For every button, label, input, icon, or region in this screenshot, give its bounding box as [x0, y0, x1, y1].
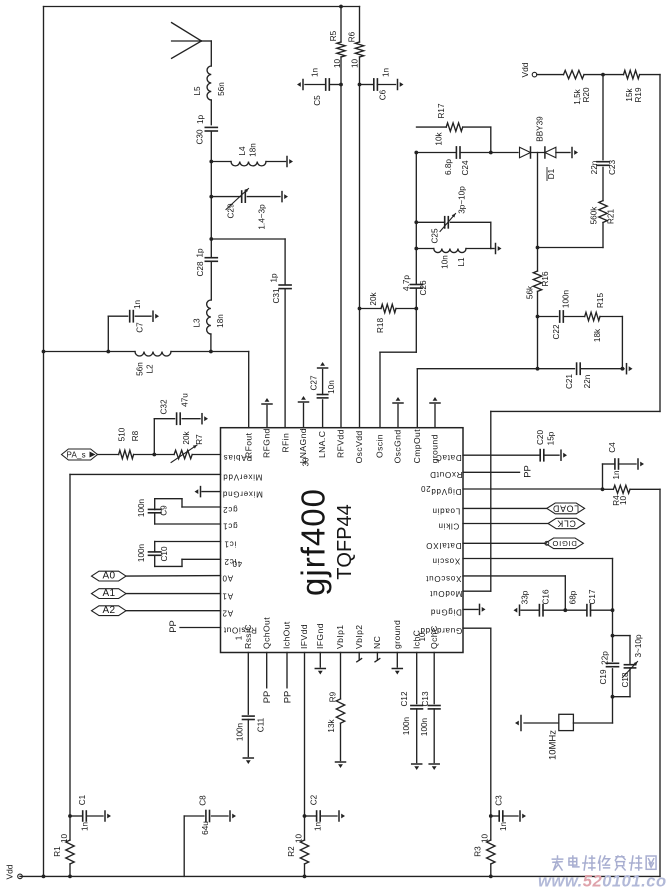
ground C12 bottom	[412, 764, 422, 770]
svg-text:R19: R19	[634, 87, 643, 102]
svg-text:100n: 100n	[137, 543, 146, 562]
resistor R21	[590, 201, 616, 225]
ground C1	[105, 811, 111, 821]
ground C7	[153, 311, 159, 321]
wire C23 to R21	[602, 167, 604, 200]
svg-text:MixerGnd: MixerGnd	[222, 490, 263, 499]
svg-text:10n: 10n	[441, 255, 450, 269]
wire C31 to RFin pin	[284, 289, 286, 428]
svg-text:C22: C22	[552, 324, 561, 339]
svg-text:CmpOut: CmpOut	[412, 429, 422, 464]
capacitor C4 branch	[603, 442, 637, 489]
resistor R15	[585, 293, 605, 343]
svg-text:C8: C8	[199, 795, 208, 806]
svg-text:C1: C1	[78, 794, 87, 805]
svg-text:IFGnd: IFGnd	[315, 623, 325, 649]
svg-text:Xoscin: Xoscin	[432, 556, 461, 565]
op-amp U1 gjrf400 TQFP44 body	[221, 428, 464, 653]
pin label DataC	[435, 453, 461, 462]
svg-text:Clkin: Clkin	[438, 521, 460, 530]
wire A0	[126, 575, 221, 578]
svg-text:gc1: gc1	[222, 522, 237, 531]
svg-text:R15: R15	[596, 293, 605, 308]
ground C20	[561, 450, 567, 460]
svg-text:ground: ground	[392, 620, 402, 649]
svg-text:1n: 1n	[133, 300, 142, 310]
svg-text:L2: L2	[146, 364, 155, 374]
svg-text:PP: PP	[261, 691, 272, 704]
svg-text:A1: A1	[222, 592, 233, 601]
resistor R5	[329, 30, 345, 68]
pin label PAbias	[223, 453, 252, 462]
svg-text:22p: 22p	[601, 651, 610, 665]
ground C8	[230, 811, 236, 821]
wire VbIp2 stub	[357, 653, 362, 662]
wire Xoscin	[463, 559, 613, 634]
pin label MixerVdd	[223, 472, 263, 481]
wire cap row 3	[591, 609, 613, 611]
wire NC stub	[375, 653, 380, 662]
wire MixerVdd	[70, 474, 221, 816]
junction varactor mid	[0, 0, 1, 1]
wire C23 top	[602, 75, 604, 160]
wire R17 down	[490, 127, 492, 152]
svg-text:C27: C27	[310, 375, 319, 390]
wire R19 to right wire	[640, 74, 660, 76]
svg-text:C6: C6	[379, 89, 388, 100]
pin label VbIp2	[354, 625, 364, 649]
svg-text:www.520101.com: www.520101.com	[538, 872, 666, 888]
node A1	[92, 588, 127, 599]
resistor R1	[53, 816, 74, 876]
svg-text:L4: L4	[238, 146, 247, 156]
svg-text:1n: 1n	[311, 68, 320, 78]
wire R15 to corner	[600, 317, 622, 369]
svg-text:R1: R1	[53, 846, 62, 857]
junction C18 top	[611, 634, 615, 638]
pin label RxOutD	[430, 470, 463, 479]
wire L2 left	[44, 351, 136, 353]
svg-text:QchC: QchC	[429, 625, 439, 649]
svg-text:Loadin: Loadin	[432, 506, 461, 515]
wire crystal left	[524, 722, 559, 724]
junction R18 left	[358, 307, 362, 311]
capacitor C26	[402, 275, 428, 296]
junction R17/C24	[489, 151, 493, 155]
svg-text:QchOut: QchOut	[261, 617, 271, 649]
pin label RFVdd	[336, 429, 346, 458]
svg-text:LNA.C: LNA.C	[317, 431, 327, 458]
ground C32	[202, 414, 208, 424]
svg-text:PP: PP	[282, 691, 293, 704]
svg-text:ic1: ic1	[224, 539, 236, 548]
svg-text:A0: A0	[103, 570, 116, 581]
capacitor C9	[137, 498, 169, 517]
svg-text:A2: A2	[103, 605, 116, 616]
svg-text:22n: 22n	[590, 160, 599, 174]
wire CmpOut net	[417, 368, 574, 370]
wire D1 to ground	[556, 152, 570, 154]
svg-text:R16: R16	[541, 271, 550, 286]
wire tank lower rail right	[466, 248, 491, 250]
wire tank right	[490, 222, 492, 248]
wire C19 to crystal	[573, 669, 612, 723]
junction tank top	[414, 220, 418, 224]
wire C22 to R15	[563, 316, 584, 318]
svg-text:Vdd: Vdd	[5, 864, 15, 879]
capacitor C21	[565, 363, 592, 389]
pin label IFGnd	[315, 623, 325, 649]
wire varactor mid down	[537, 153, 539, 272]
svg-text:C26: C26	[419, 280, 428, 295]
capacitor C10	[137, 543, 169, 562]
svg-text:33p: 33p	[521, 590, 530, 604]
pin label XoscOut	[425, 574, 461, 583]
wire L5 to C30	[210, 100, 212, 125]
svg-text:1p: 1p	[196, 248, 205, 258]
node A2	[92, 605, 127, 616]
wire C31 branch	[211, 239, 285, 285]
wire right vertical upper	[659, 75, 661, 412]
node CLK	[548, 518, 585, 528]
svg-text:ModOut: ModOut	[429, 589, 462, 598]
capacitor C1	[70, 794, 103, 831]
junction L3 node	[209, 350, 213, 354]
svg-text:100n: 100n	[420, 717, 429, 736]
svg-text:R7: R7	[195, 434, 204, 445]
pin number 1	[235, 635, 244, 640]
junction R16 bottom	[536, 367, 540, 371]
wire GuardVdd down	[490, 628, 492, 816]
ground OscGnd pin	[393, 397, 403, 428]
trimmer resistor R7	[171, 430, 204, 462]
node PP RxOutD	[522, 465, 533, 478]
resistor R6	[348, 31, 364, 68]
resistor R3	[474, 816, 496, 876]
capacitor C28	[196, 248, 218, 277]
svg-text:IFVdd: IFVdd	[299, 624, 309, 649]
wire C8 branch	[184, 816, 204, 876]
wire RssiC col	[247, 653, 249, 715]
svg-text:10: 10	[481, 834, 490, 844]
svg-text:47u: 47u	[181, 393, 190, 407]
svg-text:20k: 20k	[369, 291, 378, 305]
svg-text:100n: 100n	[562, 289, 571, 308]
capacitor C8	[199, 795, 229, 835]
svg-text:R2: R2	[287, 846, 296, 857]
capacitor C30	[196, 115, 218, 145]
ground C5	[297, 80, 303, 90]
antenna	[172, 23, 212, 59]
svg-text:C4: C4	[608, 442, 617, 453]
svg-text:A0: A0	[222, 574, 233, 583]
pin label A2	[222, 609, 233, 618]
svg-text:gc2: gc2	[222, 505, 237, 514]
junction R3 rail	[489, 875, 493, 879]
capacitor C20	[536, 430, 556, 461]
svg-text:15p: 15p	[547, 431, 556, 445]
ground C13 bottom	[429, 764, 439, 770]
svg-text:C2: C2	[310, 794, 319, 805]
wire tank col top	[415, 153, 417, 285]
svg-text:R9: R9	[329, 691, 338, 702]
junction top rail R5	[339, 5, 343, 9]
wire ic1 bracket	[155, 542, 221, 552]
svg-text:C30: C30	[196, 129, 205, 144]
capacitor C16	[521, 589, 551, 616]
svg-text:4.7p: 4.7p	[402, 275, 411, 291]
varactor diode D1 right half	[545, 147, 556, 158]
inductor L2	[135, 352, 171, 376]
pin label ic2	[224, 557, 236, 566]
svg-text:PA_s: PA_s	[67, 450, 86, 459]
resistor R18	[360, 291, 417, 333]
watermark url	[538, 872, 666, 888]
svg-text:C24: C24	[461, 160, 470, 175]
wire QchOut	[266, 653, 268, 688]
svg-text:C7: C7	[136, 322, 145, 333]
pin number 10	[418, 632, 427, 641]
svg-text:D1: D1	[547, 168, 556, 179]
svg-text:18n: 18n	[216, 314, 225, 328]
resistor R17	[417, 103, 491, 146]
svg-text:R21: R21	[607, 209, 616, 224]
pin label MixerGnd	[222, 490, 263, 499]
junction C5	[339, 83, 343, 87]
svg-text:L3: L3	[193, 318, 202, 328]
resistor R20	[564, 70, 592, 104]
svg-text:100n: 100n	[402, 716, 411, 735]
svg-text:56n: 56n	[136, 362, 145, 376]
svg-text:1n: 1n	[612, 470, 621, 480]
wire right vertical lower	[659, 489, 661, 876]
wire IchC col	[416, 653, 418, 704]
svg-text:OscGnd: OscGnd	[393, 429, 403, 463]
wire XoscOut	[463, 576, 565, 610]
wire C24 left	[416, 152, 456, 154]
wire C13 down	[433, 709, 435, 763]
wire C12 down	[416, 709, 418, 763]
svg-text:R6: R6	[348, 31, 357, 42]
svg-text:3~10p: 3~10p	[634, 634, 643, 657]
pin number 20	[420, 484, 430, 493]
ground top ground pin	[430, 397, 440, 428]
pin label OscVdd	[354, 430, 364, 463]
svg-text:C13: C13	[421, 691, 430, 706]
pin label RssiOut	[223, 625, 257, 634]
label TQFP44	[334, 504, 356, 580]
ground C11 bottom	[243, 758, 253, 764]
svg-text:PP: PP	[522, 465, 533, 478]
svg-text:10: 10	[295, 834, 304, 844]
wire tank upper rail	[416, 221, 444, 223]
junction C3	[489, 814, 493, 818]
pin label NC	[372, 636, 382, 649]
capacitor C31	[270, 273, 292, 304]
wire R6 col to OscVdd pin	[359, 57, 361, 428]
capacitor C6	[360, 68, 396, 101]
ground tank	[491, 244, 502, 254]
svg-text:68p: 68p	[569, 590, 578, 604]
wire R5 top	[340, 7, 342, 43]
svg-text:C10: C10	[160, 546, 169, 561]
trimmer capacitor C25	[431, 186, 491, 244]
svg-text:C16: C16	[542, 589, 551, 604]
svg-text:C9: C9	[160, 505, 169, 516]
node PA_s	[62, 449, 98, 460]
ground D1	[572, 148, 578, 158]
svg-text:10k: 10k	[435, 131, 444, 145]
svg-text:20k: 20k	[182, 430, 191, 444]
pin label RFin	[280, 433, 290, 453]
pin label LNA.C	[317, 431, 327, 458]
junction C7 tap	[106, 350, 110, 354]
svg-text:10: 10	[418, 632, 427, 641]
wire C19 col	[612, 636, 614, 662]
svg-text:R20: R20	[582, 87, 591, 102]
trimmer capacitor C29	[226, 189, 280, 230]
svg-text:RssiC: RssiC	[243, 624, 253, 649]
junction R1 rail	[68, 875, 72, 879]
wire C7 branch	[108, 316, 127, 351]
node LOAD	[547, 503, 585, 514]
wire C18 bracket	[613, 636, 631, 697]
ground DigGnd pin	[463, 604, 486, 614]
node A0	[92, 570, 127, 581]
wire to L4	[211, 161, 231, 163]
svg-text:10MHz: 10MHz	[548, 730, 559, 760]
junction R15 bottom	[621, 367, 625, 371]
ground crystal	[515, 716, 521, 731]
svg-text:1n: 1n	[499, 822, 508, 832]
svg-text:C5: C5	[313, 95, 322, 106]
svg-text:100n: 100n	[137, 498, 146, 517]
ground C29	[282, 192, 288, 202]
svg-text:1.4~3p: 1.4~3p	[258, 204, 267, 230]
svg-text:R18: R18	[376, 318, 385, 333]
wire R9 down	[340, 723, 342, 760]
ground IFGnd pin	[315, 653, 325, 675]
wire R6 top	[359, 7, 361, 43]
junction C2	[303, 814, 307, 818]
svg-text:VbIp2: VbIp2	[354, 625, 364, 649]
svg-text:VbIp1: VbIp1	[335, 625, 345, 649]
inductor L4	[231, 143, 266, 166]
node Vdd top right	[520, 62, 537, 77]
svg-text:1n: 1n	[314, 822, 323, 832]
junction R21 tap	[536, 246, 540, 250]
svg-text:64u: 64u	[201, 821, 210, 835]
wire L4 to ground	[266, 161, 286, 163]
svg-text:C21: C21	[565, 374, 574, 389]
svg-text:1p: 1p	[196, 115, 205, 125]
wire R21 down	[538, 223, 604, 248]
svg-text:3p~10p: 3p~10p	[458, 186, 467, 214]
svg-text:560k: 560k	[590, 206, 599, 225]
pin label A0	[222, 574, 233, 583]
capacitor C2	[305, 794, 338, 831]
svg-text:100n: 100n	[236, 722, 245, 741]
svg-text:C18: C18	[621, 672, 630, 687]
pin number 30	[302, 457, 311, 466]
ground C2	[339, 811, 345, 821]
wire QchC col	[433, 653, 435, 704]
svg-text:L1: L1	[457, 257, 466, 267]
wire R20 to R19	[584, 74, 624, 76]
wire RxOutD	[463, 471, 520, 473]
junction left rail / bottom rail	[42, 875, 46, 879]
svg-text:DIGIO: DIGIO	[552, 539, 577, 548]
wire IFVdd col	[304, 653, 306, 817]
svg-text:L5: L5	[193, 86, 202, 96]
svg-text:20: 20	[420, 484, 430, 493]
junction R4 left	[601, 487, 605, 491]
svg-text:DataIXO: DataIXO	[426, 541, 462, 550]
pin label OscGnd	[393, 429, 403, 463]
wire C21 right	[580, 368, 624, 370]
node PP QchOut	[261, 691, 272, 704]
svg-text:A2: A2	[222, 609, 233, 618]
wire cap row 1	[521, 609, 539, 611]
pin label DigGnd	[430, 607, 462, 616]
pin label DigVdd	[431, 487, 462, 496]
wire Vdd to R20	[537, 74, 564, 76]
wire ModOut pin	[463, 590, 491, 592]
wire C24 to D1	[460, 152, 518, 154]
svg-text:510: 510	[118, 427, 127, 441]
wire C11 down	[247, 720, 249, 757]
svg-text:Vdd: Vdd	[520, 62, 530, 77]
capacitor C11	[236, 716, 266, 741]
svg-text:RFGnd: RFGnd	[262, 428, 272, 458]
pin label DataIXO	[426, 541, 462, 550]
wire C30 to C28 node	[210, 131, 212, 257]
pin label gc1	[222, 522, 237, 531]
svg-text:CLK: CLK	[557, 519, 576, 529]
junction C18 bottom	[611, 695, 615, 699]
svg-text:R8: R8	[131, 430, 140, 441]
pin label Xoscin	[432, 556, 461, 565]
junction C29 tap	[209, 195, 213, 199]
capacitor C5	[305, 68, 341, 106]
wire pull-up bus vertical	[490, 411, 492, 591]
junction tank bottom	[414, 247, 418, 251]
svg-text:C17: C17	[588, 589, 597, 604]
junction C1	[68, 814, 72, 818]
wire ic2 bracket	[155, 555, 221, 566]
resistor R8	[118, 427, 141, 458]
junction XoscOut row	[563, 608, 567, 612]
pin label IchOut	[282, 621, 292, 649]
capacitor C32	[154, 393, 200, 455]
svg-text:C20: C20	[536, 430, 545, 445]
pin label ground	[392, 620, 402, 649]
svg-text:10: 10	[60, 834, 69, 844]
pin number 40	[232, 559, 242, 568]
wire tank lower rail left	[416, 248, 434, 250]
wire Clkin	[463, 523, 548, 525]
svg-text:1n: 1n	[382, 68, 391, 78]
junction Vdd rail to L2	[42, 350, 46, 354]
svg-text:XoscOut: XoscOut	[425, 574, 461, 583]
svg-text:PAbias: PAbias	[223, 453, 252, 462]
pin label ic1	[224, 539, 236, 548]
wire C26 to R18 node	[415, 288, 417, 308]
svg-text:gjrf400: gjrf400	[295, 488, 332, 596]
wire C22 left	[538, 316, 558, 318]
wire R8 to R7	[134, 454, 175, 456]
wire D1 middle	[531, 152, 545, 154]
